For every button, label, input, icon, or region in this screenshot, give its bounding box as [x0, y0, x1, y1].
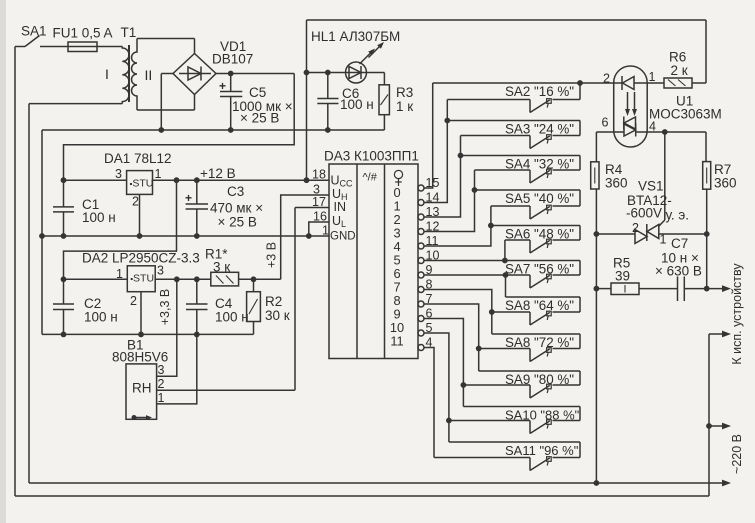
svg-text:^/#: ^/# — [363, 172, 378, 184]
svg-text:FU1 0,5 A: FU1 0,5 A — [53, 26, 113, 41]
svg-text:100 н: 100 н — [84, 310, 118, 325]
svg-text:SA6 "48 %": SA6 "48 %" — [505, 227, 574, 242]
svg-text:2: 2 — [132, 195, 139, 209]
svg-text:R2: R2 — [265, 294, 282, 309]
svg-text:SA4 "32 %": SA4 "32 %" — [505, 157, 574, 172]
svg-text:3 к: 3 к — [213, 260, 230, 275]
svg-text:470 мк ×: 470 мк × — [210, 201, 263, 216]
svg-text:+3,3 В: +3,3 В — [158, 289, 172, 326]
svg-text:2 к: 2 к — [671, 63, 688, 78]
svg-text:I: I — [105, 66, 109, 82]
svg-text:-600V: -600V — [626, 206, 662, 221]
svg-text:VS1: VS1 — [638, 179, 664, 194]
svg-text:1: 1 — [158, 391, 165, 405]
svg-text:C5: C5 — [249, 85, 266, 100]
svg-text:GND: GND — [330, 231, 356, 243]
svg-text:II: II — [145, 67, 153, 83]
svg-text:SA8 "64 %": SA8 "64 %" — [505, 298, 574, 313]
svg-text:18: 18 — [312, 168, 326, 182]
svg-text:1: 1 — [116, 267, 123, 281]
svg-text:IN: IN — [334, 200, 347, 214]
svg-text:2: 2 — [632, 221, 639, 235]
svg-text:+3 В: +3 В — [265, 242, 279, 268]
svg-text:+12 В: +12 В — [200, 166, 236, 181]
svg-text:3: 3 — [115, 167, 122, 181]
svg-text:R3: R3 — [396, 85, 413, 100]
svg-text:× 25 В: × 25 В — [218, 215, 257, 230]
svg-text:+: + — [219, 79, 226, 93]
svg-text:30 к: 30 к — [265, 308, 290, 323]
svg-text:HL1 АЛ307БМ: HL1 АЛ307БМ — [311, 29, 400, 44]
svg-text:11: 11 — [390, 334, 403, 349]
svg-text:100 н: 100 н — [340, 97, 374, 112]
svg-text:SA5 "40 %": SA5 "40 %" — [505, 191, 574, 206]
svg-text:SA11 "96 %": SA11 "96 %" — [505, 443, 579, 458]
svg-text:▪STU: ▪STU — [130, 273, 154, 285]
svg-text:C7: C7 — [671, 236, 688, 251]
svg-text:17: 17 — [312, 195, 326, 209]
svg-text:1: 1 — [322, 224, 329, 238]
svg-text:4: 4 — [649, 120, 656, 134]
svg-text:1: 1 — [649, 70, 656, 84]
svg-text:SA1: SA1 — [21, 24, 47, 39]
svg-text:DA2 LP2950CZ-3.3: DA2 LP2950CZ-3.3 — [82, 251, 200, 266]
svg-text:360: 360 — [714, 176, 737, 191]
svg-text:2: 2 — [130, 294, 137, 308]
svg-text:2: 2 — [603, 72, 610, 86]
svg-text:~220 В: ~220 В — [730, 434, 744, 474]
svg-text:SA7 "56 %": SA7 "56 %" — [505, 262, 574, 277]
svg-text:▪STU: ▪STU — [130, 178, 154, 190]
svg-text:× 630 В: × 630 В — [655, 264, 702, 279]
svg-text:SA2 "16 %": SA2 "16 %" — [505, 84, 574, 99]
svg-text:+: + — [185, 191, 192, 205]
svg-text:T1: T1 — [121, 25, 137, 40]
svg-text:SA10 "88 %": SA10 "88 %" — [505, 408, 580, 423]
svg-text:6: 6 — [602, 116, 609, 130]
svg-text:× 25 В: × 25 В — [240, 111, 279, 126]
svg-text:К исп. устройству: К исп. устройству — [730, 263, 744, 365]
svg-text:100 н: 100 н — [215, 310, 249, 325]
svg-text:16: 16 — [313, 210, 327, 224]
svg-text:DB107: DB107 — [212, 52, 253, 67]
svg-text:SA3 "24 %": SA3 "24 %" — [505, 122, 574, 137]
svg-text:3: 3 — [157, 264, 164, 278]
svg-text:SA9 "80 %": SA9 "80 %" — [505, 372, 574, 387]
svg-text:1: 1 — [660, 233, 667, 247]
svg-text:39: 39 — [615, 269, 630, 284]
svg-text:2: 2 — [158, 377, 165, 391]
svg-text:SA8 "72 %": SA8 "72 %" — [505, 335, 574, 350]
svg-text:MOC3063M: MOC3063M — [649, 107, 722, 122]
svg-text:RH: RH — [132, 381, 152, 396]
svg-text:100 н: 100 н — [82, 210, 116, 225]
svg-text:DA3 К1003ПП1: DA3 К1003ПП1 — [324, 149, 419, 164]
svg-text:у. э.: у. э. — [666, 208, 690, 223]
svg-text:1: 1 — [155, 167, 162, 181]
svg-text:3: 3 — [158, 363, 165, 377]
svg-text:DA1 78L12: DA1 78L12 — [104, 151, 172, 166]
svg-text:C3: C3 — [227, 184, 244, 199]
svg-text:1 к: 1 к — [396, 99, 413, 114]
svg-text:360: 360 — [605, 176, 628, 191]
